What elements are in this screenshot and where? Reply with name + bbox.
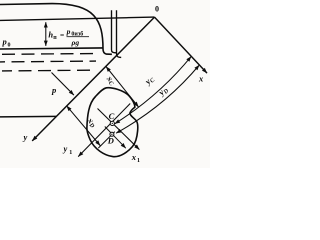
tank lid with curved corner into tube bbox=[0, 4, 112, 55]
svg-text:ρg: ρg bbox=[71, 38, 80, 47]
free surface line bbox=[0, 48, 103, 49]
water shading dash row 1 bbox=[2, 53, 99, 56]
svg-text:D: D bbox=[107, 135, 114, 145]
plate blob outline bbox=[87, 88, 138, 157]
water shading dash row 3 bbox=[2, 69, 93, 72]
y_C dimension line bbox=[115, 56, 192, 123]
svg-text:y: y bbox=[63, 144, 68, 154]
svg-text:p: p bbox=[2, 37, 7, 47]
x_D dimension line bbox=[67, 106, 101, 146]
p force arrow onto wall bbox=[52, 73, 74, 96]
svg-text:C: C bbox=[109, 111, 115, 121]
y1 centroidal axis through C bbox=[78, 104, 130, 157]
svg-text:1: 1 bbox=[137, 158, 140, 164]
x axis from origin 0 bbox=[155, 17, 208, 73]
h_p double arrow bbox=[45, 22, 47, 46]
x_C dimension line bbox=[106, 67, 139, 108]
y_D dimension line bbox=[116, 65, 199, 133]
svg-text:п: п bbox=[53, 35, 57, 41]
svg-text:p: p bbox=[51, 85, 56, 95]
svg-text:=: = bbox=[60, 31, 64, 40]
centroid C marker bbox=[110, 121, 114, 125]
svg-text:xC: xC bbox=[103, 73, 118, 88]
fraction bar bbox=[67, 35, 90, 38]
svg-text:x: x bbox=[131, 152, 137, 162]
water shading dash row 2 bbox=[0, 60, 96, 63]
svg-text:yC: yC bbox=[142, 73, 157, 88]
pressure centre D marker bbox=[110, 132, 114, 136]
piezometer tube right wall bbox=[117, 10, 122, 57]
piezometric plane line bbox=[0, 17, 155, 20]
svg-text:y: y bbox=[23, 132, 28, 142]
y axis along inclined wall bbox=[32, 17, 154, 141]
svg-text:p: p bbox=[66, 27, 71, 36]
svg-text:0: 0 bbox=[155, 4, 159, 13]
piezometer tube left wall bbox=[112, 10, 117, 53]
svg-text:1: 1 bbox=[69, 150, 72, 156]
x1 centroidal axis through C bbox=[98, 109, 140, 150]
svg-text:x: x bbox=[198, 74, 204, 84]
tank bottom line bbox=[0, 115, 56, 118]
svg-text:0: 0 bbox=[8, 43, 11, 49]
axis through D parallel to x bbox=[105, 127, 126, 149]
D extension line bbox=[98, 132, 115, 149]
